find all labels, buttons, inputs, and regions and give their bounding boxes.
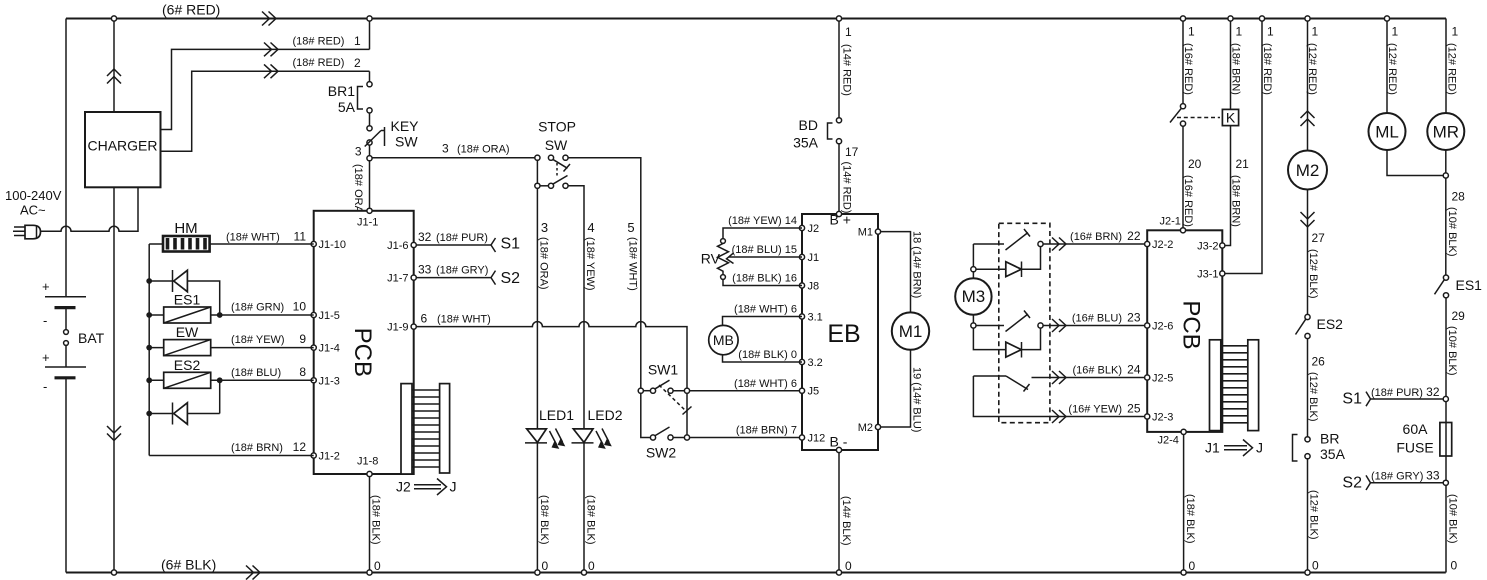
svg-text:J5: J5	[808, 386, 820, 398]
svg-text:25: 25	[1127, 402, 1141, 416]
svg-text:FUSE: FUSE	[1396, 440, 1433, 456]
svg-text:(18# BLK): (18# BLK)	[538, 495, 550, 545]
svg-text:J1-1: J1-1	[357, 217, 378, 229]
svg-text:33: 33	[418, 263, 432, 277]
svg-text:3.2: 3.2	[808, 357, 823, 369]
svg-text:J1-4: J1-4	[319, 343, 340, 355]
svg-text:SW: SW	[545, 137, 568, 153]
svg-text:0: 0	[1312, 559, 1319, 573]
svg-text:BR1: BR1	[328, 83, 355, 99]
svg-text:(18# BLK): (18# BLK)	[585, 495, 597, 545]
svg-text:3.1: 3.1	[808, 312, 823, 324]
svg-text:J1-5: J1-5	[319, 310, 340, 322]
svg-text:23: 23	[1127, 311, 1141, 325]
svg-text:M1: M1	[899, 322, 923, 341]
svg-text:1: 1	[1267, 25, 1274, 39]
svg-text:(12# RED): (12# RED)	[1446, 43, 1458, 95]
svg-text:(12# RED): (12# RED)	[1386, 43, 1398, 95]
svg-text:22: 22	[1127, 229, 1141, 243]
svg-text:6: 6	[421, 312, 428, 326]
svg-text:(12# RED): (12# RED)	[1306, 43, 1318, 95]
svg-text:(18# WHT): (18# WHT)	[437, 314, 491, 326]
svg-text:35A: 35A	[793, 135, 819, 151]
svg-text:24: 24	[1127, 363, 1141, 377]
svg-text:(16# BLK): (16# BLK)	[1072, 365, 1122, 377]
svg-text:MR: MR	[1433, 123, 1459, 142]
svg-text:MB: MB	[713, 332, 734, 348]
svg-text:(18# BRN): (18# BRN)	[1230, 175, 1242, 227]
svg-text:(10# BLK): (10# BLK)	[1446, 207, 1458, 257]
svg-text:ML: ML	[1375, 123, 1399, 142]
svg-text:J3-1: J3-1	[1197, 269, 1218, 281]
svg-text:J1-9: J1-9	[387, 322, 408, 334]
svg-text:J2-1: J2-1	[1160, 216, 1181, 228]
svg-text:ES1: ES1	[174, 292, 201, 308]
svg-text:3: 3	[442, 142, 449, 156]
svg-text:J1: J1	[808, 252, 820, 264]
svg-text:(18# BRN): (18# BRN)	[1230, 43, 1242, 95]
svg-text:19 (14# BLU): 19 (14# BLU)	[911, 367, 923, 432]
svg-text:CHARGER: CHARGER	[87, 138, 157, 154]
svg-text:EB: EB	[827, 320, 860, 348]
svg-text:(18# BLK): (18# BLK)	[370, 495, 382, 545]
svg-text:J2-2: J2-2	[1152, 239, 1173, 251]
svg-text:18 (14# BRN): 18 (14# BRN)	[911, 231, 923, 298]
svg-text:M2: M2	[858, 422, 873, 434]
svg-text:J8: J8	[808, 281, 820, 293]
svg-text:J2-4: J2-4	[1158, 435, 1179, 447]
svg-text:(14# RED): (14# RED)	[841, 162, 853, 214]
svg-text:(16# RED): (16# RED)	[1182, 175, 1194, 227]
svg-text:5: 5	[627, 220, 634, 235]
svg-text:PCB: PCB	[1178, 300, 1205, 349]
svg-text:J12: J12	[808, 433, 826, 445]
svg-text:(18# BLK) 16: (18# BLK) 16	[732, 273, 797, 285]
svg-text:(18# GRY): (18# GRY)	[436, 265, 488, 277]
svg-text:0: 0	[374, 559, 381, 573]
svg-text:(18# BLU) 15: (18# BLU) 15	[732, 244, 797, 256]
svg-text:21: 21	[1236, 157, 1250, 171]
svg-text:(18# YEW): (18# YEW)	[231, 334, 285, 346]
svg-text:1: 1	[1312, 25, 1319, 39]
svg-text:J2: J2	[396, 479, 411, 495]
svg-text:(18# BLK) 0: (18# BLK) 0	[738, 349, 797, 361]
svg-text:(12# BLK): (12# BLK)	[1308, 490, 1320, 540]
svg-text:1: 1	[1188, 25, 1195, 39]
svg-text:1: 1	[1392, 25, 1399, 39]
svg-text:(18# BLU): (18# BLU)	[231, 367, 281, 379]
svg-text:J: J	[450, 479, 457, 495]
svg-text:KEY: KEY	[391, 118, 420, 134]
svg-text:3: 3	[541, 220, 548, 235]
svg-text:+: +	[42, 350, 50, 365]
svg-text:(16# BLU): (16# BLU)	[1072, 313, 1122, 325]
svg-text:(18# WHT) 6: (18# WHT) 6	[734, 378, 797, 390]
svg-text:K: K	[1226, 110, 1236, 126]
svg-text:5A: 5A	[338, 99, 356, 115]
svg-text:J: J	[1256, 440, 1263, 456]
svg-text:J1: J1	[1205, 440, 1220, 456]
svg-text:S2: S2	[501, 270, 521, 287]
svg-text:29: 29	[1452, 309, 1466, 323]
svg-text:S1: S1	[1342, 391, 1362, 408]
svg-text:10: 10	[293, 300, 307, 314]
svg-text:J2: J2	[808, 223, 820, 235]
svg-text:(6# RED): (6# RED)	[162, 2, 220, 18]
svg-text:M1: M1	[858, 227, 873, 239]
svg-text:SW1: SW1	[648, 362, 679, 378]
svg-text:LED2: LED2	[588, 407, 623, 423]
svg-text:(18# GRN): (18# GRN)	[231, 302, 284, 314]
svg-text:(18# PUR): (18# PUR)	[1371, 387, 1423, 399]
svg-text:J1-3: J1-3	[319, 375, 340, 387]
svg-text:100-240V: 100-240V	[5, 188, 62, 203]
svg-text:(18# ORA): (18# ORA)	[352, 164, 364, 217]
svg-text:(18# GRY): (18# GRY)	[1371, 471, 1423, 483]
svg-text:J1-8: J1-8	[357, 456, 378, 468]
svg-text:HM: HM	[174, 220, 197, 237]
svg-text:SW: SW	[395, 134, 418, 150]
svg-text:(6# BLK): (6# BLK)	[161, 557, 216, 573]
svg-text:(16# RED): (16# RED)	[1182, 43, 1194, 95]
svg-text:26: 26	[1312, 355, 1326, 369]
svg-text:ES2: ES2	[174, 357, 201, 373]
svg-text:(10# BLK): (10# BLK)	[1446, 326, 1458, 376]
svg-text:(18# BRN) 7: (18# BRN) 7	[736, 425, 797, 437]
svg-text:LED1: LED1	[539, 407, 574, 423]
svg-text:0: 0	[1451, 559, 1458, 573]
svg-text:J1-10: J1-10	[319, 239, 347, 251]
svg-text:8: 8	[299, 365, 306, 379]
svg-text:(14# BLK): (14# BLK)	[840, 496, 852, 546]
svg-text:EW: EW	[176, 324, 199, 340]
svg-text:12: 12	[293, 440, 307, 454]
svg-text:AC~: AC~	[20, 203, 46, 218]
svg-text:17: 17	[845, 145, 859, 159]
svg-text:0: 0	[542, 559, 549, 573]
svg-text:(18# BRN): (18# BRN)	[231, 442, 283, 454]
svg-text:J2-6: J2-6	[1152, 321, 1173, 333]
svg-text:S2: S2	[1342, 475, 1362, 492]
svg-text:1: 1	[1236, 25, 1243, 39]
svg-text:J1-7: J1-7	[387, 273, 408, 285]
svg-text:STOP: STOP	[538, 119, 576, 135]
svg-text:32: 32	[1426, 385, 1440, 399]
svg-text:M2: M2	[1296, 161, 1320, 180]
svg-text:60A: 60A	[1403, 421, 1429, 437]
svg-text:(18# YEW): (18# YEW)	[584, 237, 596, 291]
svg-text:0: 0	[845, 559, 852, 573]
svg-text:33: 33	[1426, 469, 1440, 483]
svg-text:M3: M3	[962, 287, 986, 306]
svg-text:9: 9	[299, 332, 306, 346]
svg-text:(18# ORA): (18# ORA)	[457, 144, 510, 156]
svg-text:0: 0	[1189, 559, 1196, 573]
svg-text:BR: BR	[1320, 431, 1339, 447]
svg-text:SW2: SW2	[646, 445, 677, 461]
svg-text:(18# WHT) 6: (18# WHT) 6	[734, 304, 797, 316]
svg-text:1: 1	[1452, 25, 1459, 39]
svg-text:J1-2: J1-2	[319, 451, 340, 463]
svg-text:(16# YEW): (16# YEW)	[1068, 404, 1122, 416]
svg-text:(18# YEW) 14: (18# YEW) 14	[728, 215, 797, 227]
svg-text:RV: RV	[701, 251, 721, 267]
svg-text:-: -	[43, 379, 47, 394]
svg-text:-: -	[43, 313, 47, 328]
svg-text:B +: B +	[830, 212, 851, 228]
svg-text:4: 4	[587, 220, 594, 235]
svg-text:+: +	[42, 279, 50, 294]
svg-text:ES2: ES2	[1317, 316, 1344, 332]
svg-text:(18# RED): (18# RED)	[293, 36, 345, 48]
svg-text:2: 2	[354, 56, 361, 70]
svg-text:PCB: PCB	[349, 328, 376, 377]
svg-text:(18# RED): (18# RED)	[293, 57, 345, 69]
svg-text:(12# BLK): (12# BLK)	[1307, 249, 1319, 299]
svg-text:1: 1	[845, 25, 852, 39]
svg-text:BAT: BAT	[78, 330, 105, 346]
svg-text:J1-6: J1-6	[387, 240, 408, 252]
svg-text:1: 1	[354, 34, 361, 48]
svg-text:20: 20	[1188, 157, 1202, 171]
svg-text:J3-2: J3-2	[1197, 241, 1218, 253]
svg-text:3: 3	[355, 145, 362, 159]
svg-text:(14# RED): (14# RED)	[841, 44, 853, 96]
svg-text:BD: BD	[799, 117, 818, 133]
svg-text:(18# BLK): (18# BLK)	[1184, 494, 1196, 544]
svg-text:(18# ORA): (18# ORA)	[538, 237, 550, 290]
svg-text:(18# WHT): (18# WHT)	[226, 232, 280, 244]
svg-text:35A: 35A	[1320, 446, 1346, 462]
svg-text:(12# BLK): (12# BLK)	[1307, 372, 1319, 422]
svg-text:(16# BRN): (16# BRN)	[1070, 231, 1122, 243]
svg-text:J2-5: J2-5	[1152, 373, 1173, 385]
svg-text:S1: S1	[501, 236, 521, 253]
svg-text:0: 0	[588, 559, 595, 573]
svg-text:B -: B -	[830, 434, 848, 450]
svg-text:ES1: ES1	[1456, 277, 1483, 293]
svg-text:32: 32	[418, 230, 432, 244]
svg-text:(18# WHT): (18# WHT)	[627, 237, 639, 291]
svg-text:(18# RED): (18# RED)	[1261, 43, 1273, 95]
svg-text:J2-3: J2-3	[1152, 412, 1173, 424]
svg-text:11: 11	[294, 230, 307, 244]
svg-text:(10# BLK): (10# BLK)	[1447, 494, 1459, 544]
svg-text:27: 27	[1312, 231, 1326, 245]
svg-text:28: 28	[1452, 190, 1466, 204]
svg-text:(18# PUR): (18# PUR)	[436, 232, 488, 244]
